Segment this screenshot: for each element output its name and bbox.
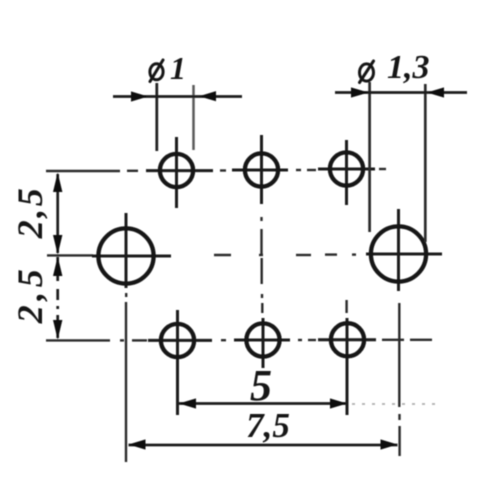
hole H6 bottom-left small (circle ø1)	[161, 324, 194, 357]
hole H5 middle-right large (circle ø1.3)	[371, 226, 426, 281]
hole H2 top-middle small (circle ø1)	[245, 153, 278, 186]
svg-text:5: 5	[250, 361, 272, 410]
svg-text:7,5: 7,5	[246, 406, 290, 445]
dimension line ø1,3	[335, 91, 467, 94]
dimension line vertical 2,5 lower segment (dash-dot shaft)	[56, 257, 59, 338]
svg-text:1,3: 1,3	[387, 49, 430, 86]
arrow 5 left (points left)	[179, 398, 196, 408]
dimension line ø1	[113, 95, 242, 98]
center line left large hole vertical extension	[125, 293, 128, 462]
hole H8 bottom-right small (crosshair)	[318, 318, 376, 415]
arrow 2,5 upper top (points up)	[53, 173, 62, 193]
arrow ø1 right (points left)	[199, 91, 216, 101]
arrow 7,5 left (points left)	[129, 439, 146, 449]
arrow 5 right (points right)	[330, 398, 347, 408]
arrow ø1 left (points right)	[131, 91, 148, 101]
hole H7 bottom-middle small (crosshair)	[234, 318, 290, 368]
extension line left of ø1,3 dimension	[368, 82, 371, 232]
arrow 2,5 lower bottom (points down)	[53, 320, 62, 340]
center line row2 horizontal (through large hole row)	[47, 253, 356, 256]
arrow ø1,3 right (points left)	[427, 87, 444, 97]
hole H7 bottom-middle small (circle ø1)	[246, 323, 279, 356]
center line stub above bottom-right hole	[345, 300, 347, 313]
arrow ø1,3 left (points right)	[351, 87, 369, 97]
extension line right of ø1 dimension	[192, 85, 195, 150]
hole H3 top-right small (crosshair)	[318, 140, 375, 205]
hole H5 middle-right large (crosshair)	[366, 209, 442, 291]
center line right large hole vertical extension (7.5 dim extension)	[398, 303, 401, 456]
hole H1 top-left small (crosshair)	[146, 137, 213, 208]
hole H1 top-left small (circle ø1)	[160, 154, 193, 187]
hole H6 bottom-left small (crosshair)	[148, 310, 212, 415]
hole H3 top-right small (circle ø1)	[330, 152, 363, 185]
hole H4 middle-left large (crosshair)	[92, 213, 171, 288]
svg-text:2,5: 2,5	[10, 186, 50, 240]
arrow 7,5 right (points right)	[381, 439, 398, 449]
hole H2 top-middle small (crosshair)	[232, 135, 288, 204]
hole H8 bottom-right small (circle ø1)	[331, 323, 364, 356]
arrow 2,5 lower top (points up)	[53, 257, 62, 277]
faint dashed continuation of 5 dimension line	[352, 403, 436, 405]
dimension line vertical 2,5 upper segment	[56, 174, 59, 253]
label ø1 (diameter symbol)	[150, 60, 163, 82]
svg-text:2,5: 2,5	[10, 265, 50, 325]
dimension line 7,5	[129, 444, 398, 447]
svg-text:1: 1	[170, 50, 186, 86]
arrow 2,5 upper bottom (points down)	[53, 235, 62, 255]
extension line left of ø1 dimension	[155, 83, 158, 151]
center line middle column vertical (links top-middle and bottom-middle holes)	[260, 217, 263, 313]
center line row3 horizontal (through bottom hole row)	[46, 339, 432, 342]
center line row1 horizontal (through top hole row)	[46, 169, 386, 171]
dimension line 5	[179, 402, 347, 405]
extension line right of ø1,3 dimension	[424, 84, 427, 242]
label ø1,3 (diameter symbol)	[360, 61, 374, 83]
hole H4 middle-left large (circle ø1.3)	[98, 228, 153, 283]
